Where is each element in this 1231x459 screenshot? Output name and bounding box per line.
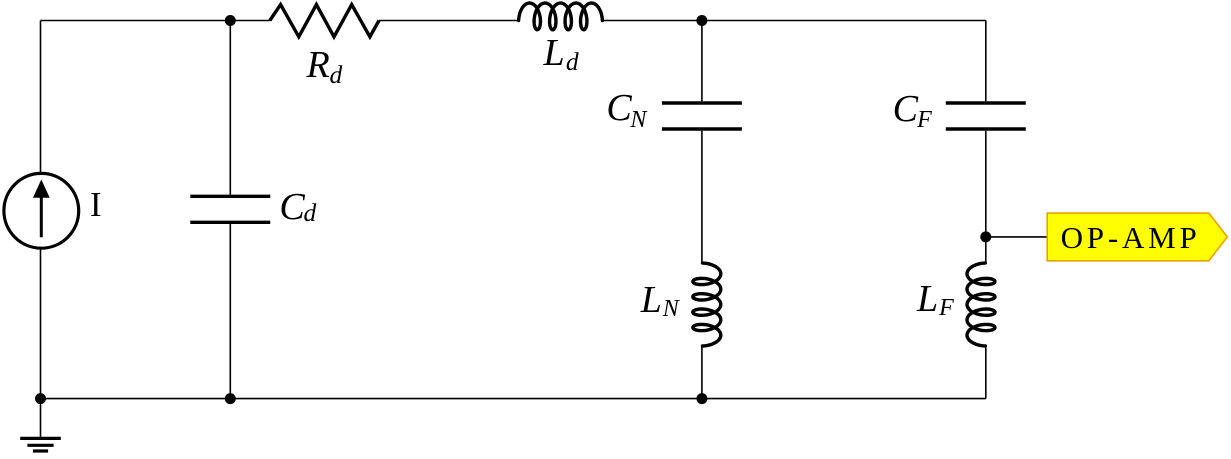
wire LN to bottom — [701, 346, 703, 399]
wire CF to opamp node — [985, 131, 987, 263]
node dot bottom A — [225, 393, 236, 404]
wire top-left horizontal — [41, 20, 231, 22]
inductor Ld — [519, 3, 603, 30]
wire left vertical lower — [40, 248, 42, 399]
node dot bottom B — [696, 393, 707, 404]
label OP-AMP — [1061, 222, 1201, 253]
label Rd — [307, 46, 330, 84]
label I — [90, 188, 102, 223]
wire node B to top-right corner — [702, 20, 986, 22]
wire LF to bottom — [985, 346, 987, 399]
label CN — [606, 89, 631, 127]
wire Cd branch upper — [229, 21, 231, 195]
OP-AMP tag — [1047, 213, 1227, 261]
node dot top A — [225, 15, 236, 26]
wire CN branch upper — [701, 21, 703, 102]
resistor Rd — [270, 5, 379, 37]
inductor LN — [693, 263, 721, 346]
capacitor Cd — [190, 196, 270, 222]
current source arrow — [33, 180, 50, 238]
node dot bottom-left — [35, 393, 46, 404]
node dot OP-AMP — [980, 231, 991, 242]
inductor LF — [967, 263, 995, 346]
label LN — [641, 281, 662, 319]
wire node A to resistor — [230, 20, 269, 22]
wire opamp node to tag — [986, 236, 1047, 238]
current source I circle — [4, 173, 79, 248]
label Ld — [544, 34, 565, 72]
capacitor CF — [946, 103, 1026, 129]
label CF — [893, 90, 918, 128]
ground — [20, 399, 61, 451]
wire left vertical upper — [40, 21, 42, 174]
wire Cd branch lower — [229, 224, 231, 399]
wire resistor to inductor Ld — [379, 20, 519, 22]
wire inductor Ld to node B — [602, 20, 702, 22]
wire CN to LN — [701, 131, 703, 263]
wire CF branch upper — [985, 21, 987, 102]
wire bottom horizontal — [41, 398, 986, 400]
capacitor CN — [662, 103, 742, 129]
label Cd — [279, 188, 304, 226]
node dot top B — [696, 15, 707, 26]
label LF — [917, 280, 938, 318]
